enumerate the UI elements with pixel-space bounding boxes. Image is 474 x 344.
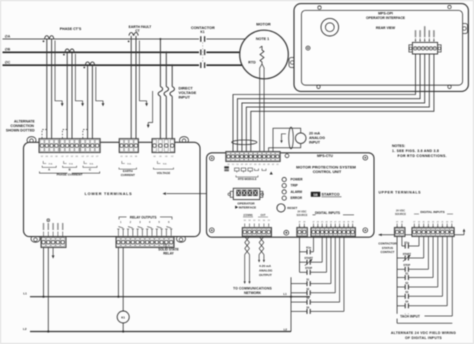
svg-text:∅B: ∅B xyxy=(5,48,11,52)
svg-text:SB: SB xyxy=(313,193,318,197)
svg-text:K1a: K1a xyxy=(306,245,311,249)
svg-text:46: 46 xyxy=(418,221,420,223)
svg-text:K1: K1 xyxy=(200,30,204,34)
svg-text:L1: L1 xyxy=(283,292,287,296)
svg-text:A: A xyxy=(48,167,50,171)
svg-text:RESET: RESET xyxy=(287,206,297,210)
svg-text:45: 45 xyxy=(321,221,323,223)
svg-text:43: 43 xyxy=(432,221,434,223)
svg-text:24 VDC: 24 VDC xyxy=(396,208,405,212)
svg-text:RELAY: RELAY xyxy=(163,252,174,256)
svg-text:LOWER TERMINALS: LOWER TERMINALS xyxy=(85,192,133,196)
svg-text:STARTCO: STARTCO xyxy=(322,193,340,197)
svg-text:TO COMMUNICATIONS: TO COMMUNICATIONS xyxy=(233,286,272,290)
svg-text:PHASE CT’S: PHASE CT’S xyxy=(60,27,82,31)
svg-text:MOTOR: MOTOR xyxy=(256,22,271,27)
svg-text:∅A: ∅A xyxy=(5,34,11,38)
svg-text:L1: L1 xyxy=(23,292,27,296)
svg-text:43: 43 xyxy=(330,221,332,223)
svg-text:38: 38 xyxy=(352,221,354,223)
svg-text:ERROR: ERROR xyxy=(291,196,303,200)
svg-text:DIRECT: DIRECT xyxy=(179,87,194,91)
svg-text:RTD MODULE: RTD MODULE xyxy=(238,177,257,181)
svg-text:∅C: ∅C xyxy=(5,61,11,65)
svg-text:POWER: POWER xyxy=(291,178,304,182)
svg-text:INTERFACE: INTERFACE xyxy=(239,206,257,210)
svg-text:24 VDC: 24 VDC xyxy=(297,209,306,213)
svg-text:MPS-CTU: MPS-CTU xyxy=(317,154,333,158)
svg-text:INPUT: INPUT xyxy=(179,96,191,100)
svg-text:RELAY OUTPUTS: RELAY OUTPUTS xyxy=(130,216,157,220)
svg-text:41: 41 xyxy=(441,221,443,223)
svg-text:FOR RTD CONNECTIONS.: FOR RTD CONNECTIONS. xyxy=(398,154,447,158)
svg-text:49: 49 xyxy=(396,221,398,223)
svg-text:L2: L2 xyxy=(284,328,288,332)
svg-text:1. SEE FIGS. 3.6 AND 3.8: 1. SEE FIGS. 3.6 AND 3.8 xyxy=(392,149,439,153)
svg-text:47: 47 xyxy=(312,221,314,223)
svg-text:ANALOG: ANALOG xyxy=(309,136,325,140)
svg-text:44: 44 xyxy=(427,221,429,223)
svg-text:OUTPUT: OUTPUT xyxy=(259,273,272,277)
svg-text:STATUS: STATUS xyxy=(382,246,393,250)
svg-text:49: 49 xyxy=(298,221,300,223)
svg-text:ANALOG: ANALOG xyxy=(259,269,273,273)
svg-text:VOLTAGE: VOLTAGE xyxy=(157,171,171,175)
svg-text:(COMM): (COMM) xyxy=(243,214,252,217)
svg-text:SOURCE: SOURCE xyxy=(296,213,307,217)
svg-text:M.A.: M.A. xyxy=(127,163,132,166)
svg-text:39: 39 xyxy=(451,221,453,223)
svg-text:NOTE 1: NOTE 1 xyxy=(256,37,269,41)
svg-text:44: 44 xyxy=(325,221,327,223)
svg-text:M.A.: M.A. xyxy=(49,163,54,166)
svg-text:M.A.: M.A. xyxy=(163,163,168,166)
svg-text:RTD: RTD xyxy=(248,61,256,65)
svg-text:CONNECTION: CONNECTION xyxy=(10,124,34,128)
svg-text:K1a: K1a xyxy=(405,241,410,244)
svg-text:41: 41 xyxy=(339,221,341,223)
svg-text:47: 47 xyxy=(413,221,415,223)
svg-text:INPUT: INPUT xyxy=(309,141,321,145)
svg-text:VOLTAGE: VOLTAGE xyxy=(179,91,197,95)
svg-text:NOTES:: NOTES: xyxy=(392,144,405,148)
svg-text:ALTERNATE: ALTERNATE xyxy=(14,119,35,123)
svg-text:EARTH FAULT: EARTH FAULT xyxy=(129,25,152,29)
svg-text:20 mA: 20 mA xyxy=(309,131,320,135)
svg-text:STOP: STOP xyxy=(403,264,410,267)
svg-text:CONTACT: CONTACT xyxy=(381,250,395,254)
svg-text:MPS-OPI: MPS-OPI xyxy=(378,12,393,16)
svg-text:REAR VIEW: REAR VIEW xyxy=(376,26,396,30)
svg-text:DIGITAL INPUTS: DIGITAL INPUTS xyxy=(315,211,340,215)
svg-text:42: 42 xyxy=(437,221,439,223)
svg-text:B: B xyxy=(69,167,71,171)
svg-text:CURRENT: CURRENT xyxy=(121,173,135,177)
svg-text:46: 46 xyxy=(317,221,319,223)
svg-text:TRIP: TRIP xyxy=(291,184,299,188)
svg-text:DIGITAL INPUTS: DIGITAL INPUTS xyxy=(420,210,444,214)
svg-text:CONTACTOR: CONTACTOR xyxy=(378,241,397,245)
svg-text:PHASE CURRENT: PHASE CURRENT xyxy=(57,172,83,176)
svg-text:M.A.: M.A. xyxy=(69,163,74,166)
svg-text:M.A.: M.A. xyxy=(89,163,94,166)
svg-text:MOTOR PROTECTION SYSTEM: MOTOR PROTECTION SYSTEM xyxy=(296,164,356,169)
svg-text:CONTROL UNIT: CONTROL UNIT xyxy=(313,170,342,174)
svg-text:39: 39 xyxy=(347,221,349,223)
svg-text:L2: L2 xyxy=(23,327,27,331)
svg-text:SHOWN DOTTED: SHOWN DOTTED xyxy=(6,128,35,132)
svg-text:STOP: STOP xyxy=(305,266,312,270)
svg-text:ALARM: ALARM xyxy=(291,190,303,194)
svg-text:48: 48 xyxy=(401,221,403,223)
svg-text:OF DIGITAL INPUTS: OF DIGITAL INPUTS xyxy=(405,336,442,340)
svg-text:TACH INPUT: TACH INPUT xyxy=(400,315,420,319)
svg-text:UPPER TERMINALS: UPPER TERMINALS xyxy=(379,190,422,194)
svg-text:K1: K1 xyxy=(121,316,125,320)
svg-text:45: 45 xyxy=(423,221,425,223)
svg-text:48: 48 xyxy=(303,221,305,223)
svg-text:42: 42 xyxy=(334,221,336,223)
svg-text:40: 40 xyxy=(446,221,448,223)
svg-text:ALTERNATE 24 VDC FIELD WIRING: ALTERNATE 24 VDC FIELD WIRING xyxy=(391,331,456,335)
svg-text:40: 40 xyxy=(343,221,345,223)
svg-text:OPERATOR INTERFACE: OPERATOR INTERFACE xyxy=(366,16,406,20)
svg-text:C: C xyxy=(89,167,91,171)
svg-text:OUT: OUT xyxy=(260,214,266,217)
svg-text:SOURCE: SOURCE xyxy=(395,212,406,216)
svg-text:NETWORK: NETWORK xyxy=(244,291,262,295)
svg-text:4-20 mA: 4-20 mA xyxy=(259,264,272,268)
